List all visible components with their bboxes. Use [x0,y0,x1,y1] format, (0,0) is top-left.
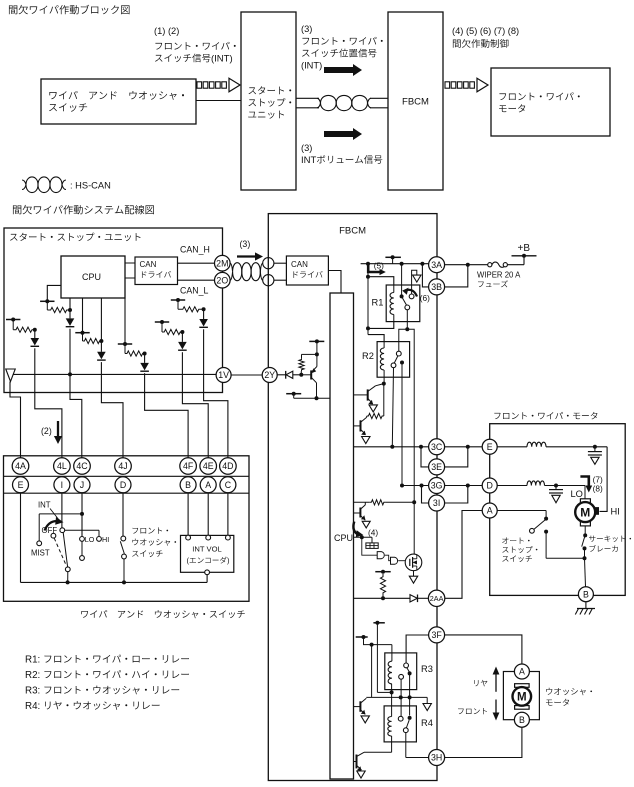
box INT VOL encoder [181,535,234,572]
svg-text:INT: INT [38,501,51,510]
diode at 2Y (cathode left) [277,374,286,376]
Q5 emitter ground [362,521,370,528]
svg-text:INT: INT [301,155,317,166]
svg-text:3C: 3C [431,442,443,452]
bold arrow (4) [353,522,359,536]
svg-text:(5): (5) [374,260,384,270]
svg-text:A: A [487,506,493,516]
connector pin A [200,477,216,493]
washer switch lower contact [122,554,127,559]
dashed alternate arm [51,533,56,538]
auto-stop run contact [544,530,548,534]
transistor Q2 (NPN) [360,420,362,431]
wire to open arrow [426,697,428,703]
wire supply to R2 coil top [368,335,384,342]
svg-text:4L: 4L [57,461,67,471]
wire B to encoder [187,493,189,535]
svg-text:D: D [487,481,493,491]
connector pin I [54,477,70,493]
block: start-stop unit [241,12,296,190]
diode to 2AA [410,595,417,602]
contact bus horizontal [366,696,427,698]
wire 4D down [203,329,205,392]
jog to 4F [145,393,189,458]
wire to sense line [407,329,414,502]
rail stub above transistor [309,340,324,342]
connector 3G [429,478,445,494]
Q6 collector [311,377,316,383]
wire CPU left to pull-up stub M1 [47,285,61,301]
twisted pair 2M/2O to FBCM [230,263,263,281]
wire CPU to CAN driver [125,262,135,264]
label auto-stop switch [502,537,508,543]
svg-text:R4:: R4: [25,701,40,712]
wire R1 lever contact down [406,310,408,330]
relay R4 box [384,706,416,742]
wire pivot to HI contact [65,529,99,531]
wire CPU pin 4J [100,298,102,352]
logic gate 1 [377,552,384,559]
svg-text:+B: +B [518,243,531,254]
wire gate2 to FET [398,560,405,562]
connector 3C [429,439,445,455]
svg-text:FBCM: FBCM [402,97,429,108]
wire CAN driver to CPU [328,271,341,294]
wire 3E to 3C bus inside [421,447,429,467]
R2 common contact [396,351,401,356]
wire FBCM CAN_L [274,279,287,281]
block: wiper and washer switch [41,79,196,124]
wire A to 2AA [445,511,482,599]
wire 3B to 3A bus (inside) [422,264,428,287]
label front washer switch [132,528,138,534]
wire gate1 to gate2 [385,555,391,561]
wire R3 coil to R4 coil [391,692,393,716]
jog to 4L [35,393,62,458]
jog to 4C [70,393,82,458]
washer switch upper contact [121,536,126,541]
auto-stop park contact [530,528,535,533]
connector 3I [429,495,445,511]
connector circle FBCM CAN_H [263,258,274,269]
resistor M4 [124,344,126,354]
diode M4 [140,363,149,371]
R1 lever tip contact [405,305,410,310]
wire FET source to ground [413,571,415,577]
jog to 4D [204,393,228,458]
wire junction down [371,645,373,698]
FET driver circle [405,554,422,571]
connector D [482,478,497,493]
svg-text:WIPER 20 A: WIPER 20 A [477,271,521,280]
connector pin C [220,477,236,493]
wire R1 coil bottom to supply branch [368,322,394,329]
ground below B [585,602,587,609]
twisted pair start-stop unit to FBCM [296,97,319,99]
rail stub left [286,393,301,395]
label rear [474,680,478,686]
wire Q4 collector to R4 coil [364,751,392,753]
connector 2AA [428,590,444,606]
svg-text:(8): (8) [593,484,603,494]
R1 common contact [400,294,404,298]
R1 coil [393,285,395,293]
svg-text:M: M [517,692,527,704]
transistor Q1 (NPN) [367,389,369,400]
wire switch to start-stop unit [196,100,241,102]
wire D net to LO brush [584,486,586,499]
svg-text:INT VOL: INT VOL [192,545,221,554]
label front wiper motor [494,413,500,419]
connector 3E [429,459,445,475]
washer switch wire from D [122,493,124,536]
wire CPU pin to stub M3 [82,298,84,333]
svg-text:LO: LO [571,489,583,499]
wire R4 lower contact to 3H [405,733,407,758]
wire 3A bus [361,263,429,265]
svg-text:3I: 3I [433,498,440,508]
rail stub M3 [75,332,89,334]
wire 3A bus to R1 common [401,264,403,295]
choke coil D line [497,485,527,487]
svg-text:CAN: CAN [291,260,308,269]
wire R2 coil bottom to Q1 [383,377,385,383]
open block-signal arrow switch to unit [197,82,202,88]
encoder contact B [186,535,191,540]
svg-text:B: B [519,715,525,725]
diode M1 [66,318,75,326]
wiper switch pivot contact [60,528,65,533]
svg-text:MIST: MIST [31,549,50,558]
rail stub top [373,622,384,624]
encoder symbol [371,537,373,543]
wire CAN driver to 2M [178,262,215,264]
svg-text:(4) (5) (6) (7) (8): (4) (5) (6) (7) (8) [452,26,519,36]
wire motor to breaker [584,526,586,536]
connector row separators [4,475,250,477]
svg-text:4A: 4A [15,461,26,471]
diode M6 [199,319,208,327]
wire CPU to 2AA [354,597,411,599]
junction 4J net [99,339,103,343]
wire 3G to D [445,485,483,487]
arrow rear (up) [495,673,497,692]
connector circle FBCM CAN_L [263,275,274,286]
R3 coil [388,661,392,684]
rail stub M4 [118,343,132,345]
svg-text:(INT): (INT) [301,61,322,71]
junction encoder net [360,535,364,539]
junction R3 coil top feed [370,643,374,647]
label wiper and washer switch [81,611,88,618]
svg-text:3F: 3F [431,630,442,640]
svg-text:I: I [61,480,63,490]
wire 3F to washer A [445,635,522,664]
svg-text:FBCM: FBCM [339,226,366,237]
R4 coil [388,717,392,737]
svg-text:4D: 4D [222,461,233,471]
wire R3 feed from 3F [406,635,428,663]
junction sense/FET [412,500,416,504]
R2 lever tip contact [391,363,396,368]
wire encoder bottom to rail [206,575,208,583]
diode M5 [178,342,187,350]
Q2 emitter ground [362,437,370,444]
IC: CPU (start-stop unit) [61,256,125,298]
label front [458,709,464,715]
junction 2Y net [299,373,303,377]
bold arrow (6) [406,290,417,297]
svg-text:(6): (6) [420,293,430,303]
svg-text:M: M [580,506,590,520]
wire 3B to fuse line (outside) [445,265,468,287]
resistor M1 [46,301,48,310]
svg-text:3G: 3G [431,481,443,491]
wire 4L down [34,348,36,392]
connector pin J [74,477,90,493]
svg-text:CPU: CPU [334,533,353,543]
bold arrow (7)(8) [580,477,588,487]
IC: CAN driver (FBCM) [286,256,328,285]
contact HI [97,537,102,542]
svg-text:(3): (3) [240,239,251,249]
box: FBCM [268,214,437,781]
svg-text:(4): (4) [368,528,378,538]
connector 4L [54,458,71,475]
svg-text:B: B [583,589,589,599]
svg-text:2AA: 2AA [430,594,444,603]
Q6 emitter with arrow [311,367,317,373]
resistor M6 [177,300,179,309]
svg-text:3B: 3B [431,282,442,292]
svg-text:4C: 4C [76,461,88,471]
svg-text:2M: 2M [216,258,228,268]
+B rail stub [512,255,537,257]
R3 upper contact [404,663,409,668]
wire stub to junction [364,637,372,645]
connector 2M [215,255,231,271]
resistor to 2AA line [380,574,385,596]
relay R3 box [385,653,417,690]
washer switch lever [120,541,124,553]
svg-text:(3): (3) [301,143,312,153]
MIST feed wire [39,513,82,515]
motor M (washer) [515,684,530,688]
bold rotate arrow OFF->INT [45,521,59,530]
wire FBCM CAN_H [274,262,287,264]
svg-text:4F: 4F [183,461,194,471]
wire 3A to fuse [445,264,488,266]
svg-text:R1:: R1: [25,655,40,666]
encoder contact C [226,535,231,540]
rail stub left [356,636,368,638]
R1 fixed contact wire with open arrow [412,270,417,294]
motor M (front wiper) [580,499,590,504]
box: front wiper motor [490,424,626,596]
open arrow (relay outputs) [423,704,431,711]
connector washer B [514,712,529,727]
svg-text:HI: HI [102,535,109,544]
svg-text:2O: 2O [216,275,228,285]
block: front wiper motor [491,68,610,136]
open block-signal arrow FBCM to motor [445,82,450,88]
R2 coil [383,342,385,348]
wire 4J down [100,362,102,392]
rail stub M1 [40,300,54,302]
FET ground [409,576,417,583]
wire washer switch to rail [123,559,125,582]
R3 lower contact [399,674,404,679]
wire I to wiper switch pivot [61,493,63,528]
wire resistor to emitter rail [302,353,317,355]
svg-text:: HS-CAN: : HS-CAN [70,181,111,191]
svg-text:(2): (2) [41,426,52,436]
box: start-stop unit [4,228,223,393]
svg-text:(1) (2): (1) (2) [154,26,179,36]
svg-text:4J: 4J [118,461,127,471]
junction 4F net [143,352,147,356]
Q4 emitter ground [357,771,365,778]
capacitor to ground (D) [555,486,557,490]
wire 4F down [144,373,146,392]
auto-stop lever [534,520,545,529]
R3 moving contact [408,671,412,675]
relay R1 box [386,285,420,322]
svg-text:HI: HI [611,507,620,517]
svg-text:J: J [80,480,84,490]
connector 2Y [262,368,277,383]
resistor M2 [12,320,14,330]
wire LO contact lower stub [81,541,83,555]
svg-text:3H: 3H [431,753,442,763]
rail stub M2 [6,319,20,321]
wire bypass to R3 coil bottom [377,691,391,693]
transistor Q6 (PNP) base bar [310,370,312,379]
switch common rail [21,581,208,583]
wire to R2 common [399,329,408,351]
svg-text:(3): (3) [301,24,312,34]
legend: HS-CAN twisted pair symbol [22,177,66,193]
connector 4F [180,458,197,475]
connector 4J [115,458,132,475]
bold arrow (5) [368,265,380,273]
fuse WIPER 20A [488,263,492,267]
svg-text:4E: 4E [203,461,214,471]
contact below LO [80,556,85,561]
wire R3 contacts down [400,679,402,716]
wire CPU pin to 4C junction [69,298,71,318]
connector 3A [429,257,445,273]
label washer motor [546,688,552,695]
svg-text:CPU: CPU [82,272,101,282]
junction collector to CPU rail [315,396,319,400]
diode M2 [31,338,40,346]
ground rail wire to 1V [12,373,216,375]
svg-text:E: E [18,480,24,490]
junction E net [593,445,597,449]
wire 4E down [181,352,183,392]
junction 4C net [68,308,72,312]
IC: CAN driver (start-stop unit) [135,257,178,285]
wire CPU pin to stub M4 [124,298,126,344]
wire A to auto-stop switch [497,510,546,512]
R4 lower contact [403,728,408,733]
junction emitter [315,352,319,356]
svg-text:3E: 3E [431,462,442,472]
CPU input rail [294,397,330,399]
rail stub above 3A bus [385,256,401,258]
sense resistor to CPU [354,501,370,503]
HI brush tab [595,507,599,515]
svg-text:B: B [185,480,191,490]
relay R2 box [377,342,410,378]
IC: CPU (FBCM) [330,293,354,779]
wire 4C down [69,329,71,393]
feedback resistor Q1-Q2 [383,384,385,416]
transistor Q4 (NPN) [356,755,358,769]
connector 4A [12,458,29,475]
wire A to encoder [207,493,209,535]
wire 3E to E net (outside) [445,447,468,467]
connector 4E [200,458,217,475]
contact MIST [37,541,42,546]
solid arrow CAN signal right [324,64,362,76]
svg-text:LO: LO [85,535,95,544]
transistor Q5 (NPN) [359,508,361,518]
connector A [482,503,497,518]
diode M3 [97,352,106,360]
encoder contact A [206,535,211,540]
wire 3C bus [354,446,429,448]
R4 lever [406,720,409,728]
wire C to encoder [227,493,229,535]
wire E to common rail [20,493,22,583]
wire R3 coil bottom [391,684,393,693]
auto-stop common [544,517,548,521]
wire stub down left bypass [376,623,378,693]
title: block diagram [9,5,17,14]
wire FET drain [413,502,415,554]
svg-text:R3:: R3: [25,686,40,697]
wire to +B [523,256,525,265]
title: wiring diagram [13,205,21,214]
svg-text:E: E [487,442,493,452]
rail stub M5 [155,321,169,323]
R2 fixed contact [400,361,404,365]
svg-text:R3: R3 [421,664,433,674]
svg-text:CAN_H: CAN_H [180,245,210,255]
connector 3F [429,627,445,643]
resistor M3 [82,333,84,341]
wire junction to gate 1 [362,537,377,555]
wire R2 fixed contact to 3G bus [401,363,403,484]
svg-text:R2:: R2: [25,670,40,681]
logic gate 2 [391,557,398,564]
connector 4C [74,458,91,475]
connector 1V [216,368,231,383]
connector pin E [13,477,29,493]
encoder bottom contact [205,570,210,575]
svg-text:R1: R1 [372,298,384,308]
rail stub above 2AA resistor [375,571,390,573]
resistor M5 [161,322,163,332]
rail stub M6 [171,299,185,301]
junction 4D net [202,307,206,311]
junction 4L net [33,328,37,332]
wire E net to HI brush [600,447,608,512]
connector 2O [215,272,231,288]
svg-text:3A: 3A [431,260,442,270]
